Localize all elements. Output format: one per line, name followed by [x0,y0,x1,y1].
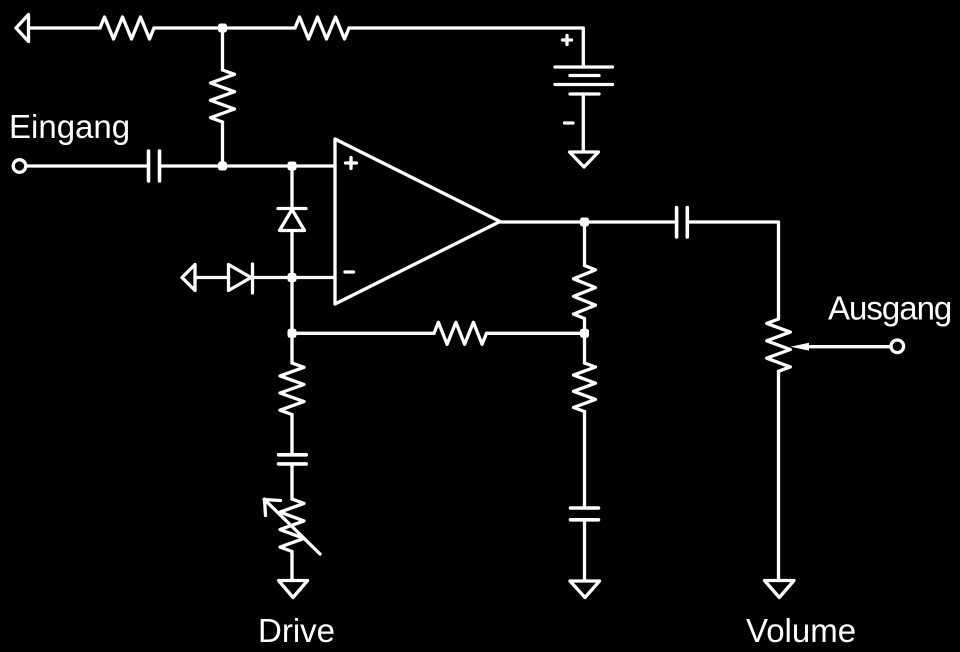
terminal Eingang [13,160,26,173]
wire [223,164,293,167]
wire [583,333,586,363]
ground (drive) [279,581,308,598]
wire [290,552,293,581]
wire [583,520,586,581]
svg-text:Ausgang: Ausgang [828,290,951,327]
node C [288,162,297,171]
resistor R4 [574,266,596,319]
wire [292,276,335,279]
wire [154,26,223,29]
battery B1 [555,65,613,68]
wire [349,28,583,67]
ground (volume) [765,581,795,598]
resistor R7 [434,322,487,344]
varistor RV1 [280,499,304,552]
node E [288,329,297,338]
wire [221,122,224,166]
node B [218,162,227,171]
wire [292,164,335,167]
wire [582,94,585,152]
ground (output filter) [570,581,600,598]
wire [27,164,149,167]
off-page arrow left (top) [16,15,29,42]
wire [585,220,677,223]
capacitor C3 [571,508,599,520]
wire [290,166,293,209]
wire [290,231,293,278]
varistor RV1 arrow [264,499,320,554]
node A [218,24,227,33]
resistor R2 [295,17,349,39]
wire [223,26,296,29]
wire [290,278,293,334]
wire [777,371,780,580]
svg-text:Eingang: Eingang [9,108,130,145]
capacitor C2 [677,208,688,238]
wire [583,222,586,266]
wire [221,28,224,70]
wire [195,276,229,279]
potentiometer wiper arrow [791,343,810,351]
terminal Ausgang [891,340,904,353]
wire [292,332,434,335]
diode D2 [229,265,252,291]
wire [290,464,293,499]
node D [288,273,297,282]
wire [500,220,585,223]
resistor R5 [574,363,596,412]
ground (battery) [570,152,599,167]
resistor R3 [211,70,235,122]
wire [583,319,586,334]
svg-text:Volume: Volume [746,612,856,649]
node G [580,329,589,338]
op-amp U1 [335,139,500,304]
op-amp plus input label [346,158,357,169]
wire [160,164,223,167]
node F [580,218,589,227]
potentiometer Volume [767,319,791,371]
battery B1 minus label [565,121,574,124]
op-amp minus input label [345,270,354,273]
resistor R1 [100,17,154,39]
wire [253,276,293,279]
diode D1 [278,207,306,210]
wire [487,332,585,335]
capacitor C4 [279,455,307,464]
battery B1 plus label [563,36,572,45]
wire [687,222,778,319]
wire [29,26,101,29]
svg-text:Drive: Drive [258,612,335,649]
wire [583,412,586,509]
capacitor C1 [149,151,160,181]
resistor R6 [280,363,304,415]
wire [290,415,293,455]
wire [290,333,293,363]
off-page arrow left (minus input) [182,265,195,291]
